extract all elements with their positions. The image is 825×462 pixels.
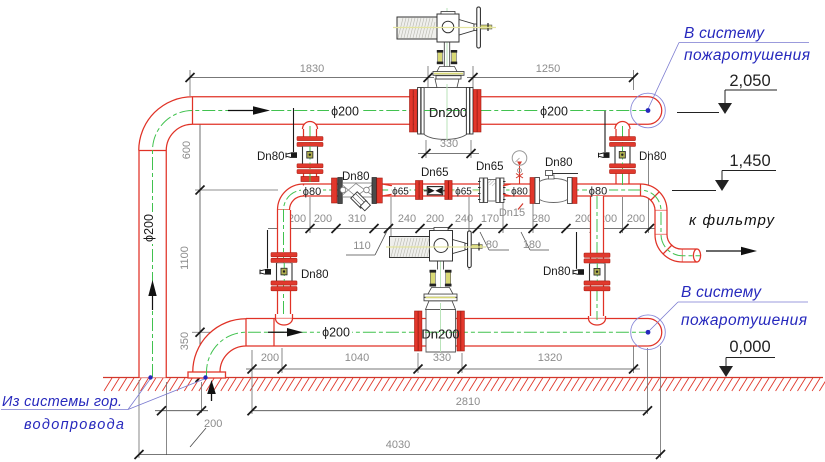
ARROWS [148,106,757,401]
riser B (lower left Dn80) body [278,210,291,314]
riser D (lower right Dn80) [589,196,606,325]
svg-text:200: 200 [426,213,444,225]
centerline through top valve body [424,110,467,112]
svg-text:Dn65: Dn65 [476,161,504,173]
flow arrow left pipe up [152,295,154,310]
gate valve V2 Dn80 [530,157,578,204]
svg-text:330: 330 [433,352,451,364]
bypass pipe f80 horizontal [290,184,641,196]
bottom row dims 200/1040/330/1320 [246,318,640,414]
svg-text:Из системы гор.: Из системы гор. [2,394,122,410]
svg-text:240: 240 [455,213,473,225]
svg-text:Dn15: Dn15 [499,207,525,219]
bend seams [139,150,166,152]
svg-text:80: 80 [486,239,498,251]
riser D flanges and vent valve [543,232,610,291]
centerline through bottom valve body [426,331,456,333]
bottom pipe edges [246,318,648,320]
svg-text:200: 200 [627,213,645,225]
actuator M2 above bottom valve [386,228,486,310]
pale green valve axes [446,8,448,134]
green centerline riser C [622,126,624,188]
flange pair J2 [445,181,448,200]
motor body [397,17,437,39]
svg-text:Dn80: Dn80 [543,266,571,278]
top dim line 1830/1250 [186,63,639,96]
riser C flanges and vent valve [599,111,667,174]
PIPES [139,97,701,378]
top-left bend f200 [139,97,193,151]
solenoid valve Y1 Dn65 [421,167,449,195]
dim 330 top valve [418,138,479,158]
svg-text:ϕ80: ϕ80 [303,186,321,198]
green centerline stub+bottom pipe [207,332,649,377]
svg-text:1830: 1830 [300,63,324,75]
strainer F1 Dn80 (Y-filter) [332,171,383,211]
left vertical pipe f200 body [139,151,166,378]
svg-text:310: 310 [348,213,366,225]
svg-text:2810: 2810 [456,396,480,408]
top pipe edges [193,96,649,98]
flange pair J1 [416,181,419,200]
svg-text:Dn200: Dn200 [429,105,467,120]
actuator M1 above top valve [393,7,496,88]
flow arrow bottom pipe [268,331,288,333]
svg-text:Dn80: Dn80 [301,269,329,281]
inlet arrow below ground [211,392,213,401]
svg-text:600: 600 [181,141,193,159]
svg-text:180: 180 [523,239,541,251]
svg-text:ϕ65: ϕ65 [392,187,409,198]
green centerline riser D [596,196,598,320]
flow arrow top pipe [228,110,254,112]
blue note: to fire system (top) [631,25,810,128]
svg-text:Dn65: Dn65 [421,167,449,179]
svg-text:1,450: 1,450 [729,152,770,170]
blue note: to fire system (bottom) [631,284,808,350]
cone and handwheel [459,20,474,36]
middle chain dimension line [268,151,656,270]
svg-text:ϕ200: ϕ200 [322,326,350,340]
bypass edges [304,183,641,185]
svg-text:280: 280 [532,213,550,225]
bottom pipe right end cap [648,319,662,347]
gearbox [437,14,459,42]
riser C (upper right Dn80) [614,122,632,191]
elevation 0,000 [719,338,775,377]
svg-text:1250: 1250 [536,63,560,75]
expander f65-f80 [503,184,511,196]
centerlines through riser vent valves [309,147,311,165]
svg-text:1040: 1040 [345,352,369,364]
inlet stub flange at ground [188,372,226,378]
svg-text:В систему: В систему [684,25,765,42]
svg-text:1100: 1100 [179,246,191,270]
valve U1 Dn200 on top pipe [410,88,482,140]
ground line [103,377,823,379]
bypass right elbow down to filter outlet [641,184,668,211]
vertical chain 600/1100/350 [179,100,278,382]
green centerline riser A [309,126,311,182]
GROUND [103,378,825,392]
svg-text:пожаротушения: пожаротушения [681,312,807,329]
pipe labels [329,104,361,118]
svg-text:Dn80: Dn80 [257,151,285,163]
reducer f80-f65 [382,184,392,196]
svg-text:110: 110 [353,240,371,252]
svg-text:0,000: 0,000 [729,338,770,356]
svg-text:Dn80: Dn80 [545,157,573,169]
left pipe edges [138,151,140,378]
outlet vertical pipe [655,211,667,235]
svg-text:ϕ80: ϕ80 [511,187,528,198]
to-filter arrow [706,250,742,252]
svg-text:350: 350 [179,332,191,350]
butterfly valve V1 Dn65 flanged [476,161,506,203]
svg-text:ϕ200: ϕ200 [540,105,568,119]
top pipe right end cap [648,97,662,125]
svg-text:ϕ80: ϕ80 [589,186,607,198]
svg-text:Dn80: Dn80 [342,171,370,183]
CENTERLINES [153,8,701,377]
elevation 2,050 [677,72,777,114]
bottom pipe f200 body [246,319,648,347]
dim 2810 [248,348,653,415]
svg-text:200: 200 [261,352,279,364]
blue note: from hot water system [1,375,208,433]
top pipe f200 body [192,97,648,125]
svg-text:Dn80: Dn80 [639,151,667,163]
svg-text:пожаротушения: пожаротушения [684,47,810,64]
svg-text:к фильтру: к фильтру [689,212,776,229]
svg-text:200: 200 [314,213,332,225]
strainer leg [351,192,367,208]
svg-text:2,050: 2,050 [729,72,770,90]
elbow seams [245,319,247,347]
bolts [437,50,457,64]
svg-text:240: 240 [398,213,416,225]
svg-text:200: 200 [204,418,222,430]
bypass left elbow down [278,184,304,210]
svg-text:ϕ65: ϕ65 [455,187,472,198]
svg-text:водопровода: водопровода [24,417,124,433]
riser A flanges and vent valve [257,108,323,174]
pressure gauge PI Dn15 [512,151,527,210]
svg-text:ϕ200: ϕ200 [331,105,359,119]
svg-text:В систему: В систему [681,284,762,301]
second row dims 110 80 180 [346,231,549,255]
riser A (upper left Dn80) [301,122,319,183]
ground hatch [104,378,825,391]
green centerline bypass [284,190,701,314]
outlet S elbow [655,235,683,263]
svg-text:Dn200: Dn200 [421,327,459,342]
svg-text:330: 330 [440,138,458,150]
centerline overlay [281,84,625,352]
svg-text:170: 170 [481,213,499,225]
valve U2 Dn200 on bottom pipe [415,310,465,353]
green centerline left+top pipe [153,111,649,378]
svg-text:ϕ200: ϕ200 [142,214,156,242]
riser B flanges and vent valve [260,230,329,291]
bottom pipe left elbow to ground stub [193,319,246,372]
svg-text:4030: 4030 [386,439,410,451]
elevation 1,450 [672,152,776,191]
outlet stub horizontal [683,249,698,262]
svg-text:1320: 1320 [538,352,562,364]
dim 4030 [135,346,666,459]
dim 200 at inlet stub [155,382,222,455]
